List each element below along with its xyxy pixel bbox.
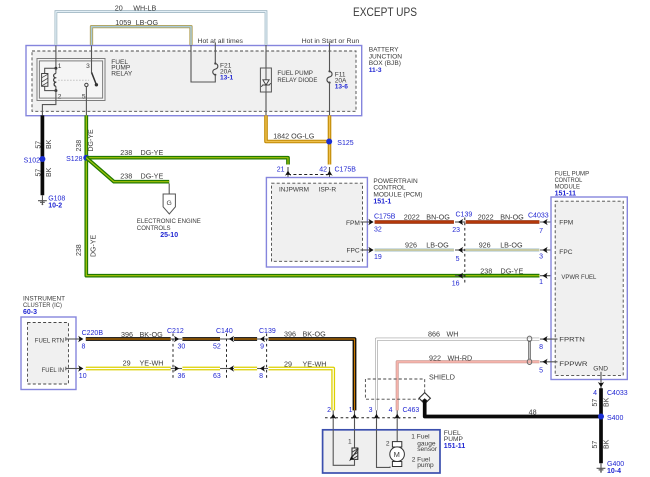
FPCM GND connector arrow bbox=[598, 382, 604, 387]
svg-text:2: 2 bbox=[386, 441, 390, 448]
powertrain control module PCM box bbox=[266, 178, 367, 268]
svg-text:C139: C139 bbox=[456, 212, 473, 219]
svg-text:C140: C140 bbox=[216, 328, 233, 335]
fuse F11 feed wire bbox=[329, 43, 331, 72]
wire 48 BK shield drain bbox=[425, 400, 601, 417]
svg-text:G: G bbox=[167, 200, 172, 207]
relay pin 5 wire (inside) bbox=[85, 87, 87, 116]
label 2022 BN-OG (left) bbox=[404, 213, 450, 222]
IC pin FUEL RTN lead and arrow bbox=[66, 336, 84, 342]
FPCM pin FPRTN arrow bbox=[540, 336, 558, 342]
wire 29 YE-WH (IC to C212) bbox=[86, 367, 171, 371]
wire 396 BK-OG (IC to C212) bbox=[86, 337, 171, 341]
label 2022 BN-OG (right) bbox=[478, 213, 524, 222]
fuel pump motor return wire to pin 3 bbox=[377, 430, 391, 468]
svg-text:FPM: FPM bbox=[559, 219, 573, 226]
fuse F11 bbox=[327, 70, 332, 83]
svg-text:LB-OG: LB-OG bbox=[136, 18, 159, 27]
battery junction box BJB outline bbox=[26, 46, 362, 116]
wire 396 BK-OG (C212 to C140) bbox=[182, 337, 220, 341]
fuel pump relay diode box bbox=[260, 68, 271, 92]
svg-text:G400: G400 bbox=[607, 461, 624, 468]
svg-text:1: 1 bbox=[349, 407, 353, 414]
ground G400 bbox=[597, 463, 606, 473]
diode label text bbox=[277, 70, 318, 84]
svg-text:PUMP: PUMP bbox=[444, 436, 464, 443]
svg-text:151-11: 151-11 bbox=[444, 443, 466, 450]
wire 1059 LB-OG label bbox=[115, 18, 158, 27]
svg-text:CLUSTER (IC): CLUSTER (IC) bbox=[23, 302, 62, 309]
IC pin FUEL IN tick bbox=[65, 367, 67, 371]
svg-text:G108: G108 bbox=[48, 195, 65, 202]
svg-text:LB-OG: LB-OG bbox=[500, 240, 523, 249]
svg-text:FUEL RTN: FUEL RTN bbox=[35, 337, 64, 344]
label 238 DG-YE (branch 2) bbox=[120, 172, 163, 181]
label 926 LB-OG (right) bbox=[479, 240, 523, 249]
wire 1059 LB-OG loop bbox=[92, 27, 192, 45]
svg-text:VPWR FUEL: VPWR FUEL bbox=[561, 274, 596, 281]
wire 2022 BN-OG (PCM to C139) bbox=[375, 220, 454, 224]
wire 238 DG-YE branch to PCM pin 21 bbox=[86, 158, 288, 165]
svg-text:57: 57 bbox=[35, 169, 42, 177]
svg-text:8: 8 bbox=[539, 344, 543, 351]
svg-text:RELAY DIODE: RELAY DIODE bbox=[277, 77, 318, 84]
svg-text:922: 922 bbox=[429, 354, 441, 363]
svg-text:YE-WH: YE-WH bbox=[303, 360, 327, 369]
svg-text:4: 4 bbox=[389, 407, 393, 414]
svg-text:4: 4 bbox=[593, 390, 597, 397]
svg-text:36: 36 bbox=[178, 373, 186, 380]
svg-text:13-1: 13-1 bbox=[220, 75, 234, 82]
connector C139 dashed line (lower) bbox=[266, 334, 268, 379]
svg-text:32: 32 bbox=[374, 227, 382, 234]
svg-text:EXCEPT UPS: EXCEPT UPS bbox=[353, 5, 417, 19]
wire 238 DG-YE (C139 to FPCM) bbox=[466, 274, 540, 278]
wire 1842 OG-LG from diode bbox=[266, 115, 329, 141]
fuel gauge sensor (variable resistor) bbox=[349, 448, 358, 461]
svg-text:WH-RD: WH-RD bbox=[448, 354, 473, 363]
EEC G pentagon symbol bbox=[163, 194, 175, 214]
EEC stub wire bbox=[168, 184, 170, 195]
svg-text:7: 7 bbox=[539, 228, 543, 235]
EEC label text bbox=[137, 218, 202, 239]
FPCM label text bbox=[555, 171, 590, 198]
svg-text:FPPWR: FPPWR bbox=[559, 361, 588, 368]
C139 arrow on YE-WH wire bbox=[257, 365, 268, 371]
svg-text:C4033: C4033 bbox=[607, 390, 628, 397]
wire 922 WH-RD bbox=[397, 362, 539, 411]
svg-text:926: 926 bbox=[405, 240, 417, 249]
svg-text:C212: C212 bbox=[167, 328, 184, 335]
svg-text:BK: BK bbox=[603, 397, 610, 407]
fuel pump relay diode symbol bbox=[261, 68, 270, 92]
label 238 DG-YE (VPWR segment) bbox=[480, 266, 523, 275]
wire 57 BK (FPCM to G400) bbox=[599, 388, 603, 463]
svg-text:YE-WH: YE-WH bbox=[140, 359, 164, 368]
svg-text:8: 8 bbox=[82, 343, 86, 350]
fuel pump control module FPCM box bbox=[551, 197, 627, 380]
svg-text:S125: S125 bbox=[337, 140, 353, 147]
svg-text:151-1: 151-1 bbox=[373, 199, 391, 206]
svg-text:5: 5 bbox=[539, 367, 543, 374]
svg-text:RELAY: RELAY bbox=[111, 71, 133, 78]
svg-text:238: 238 bbox=[76, 140, 83, 152]
svg-text:20: 20 bbox=[115, 3, 123, 12]
svg-text:BK: BK bbox=[46, 139, 53, 149]
svg-text:2022: 2022 bbox=[478, 213, 494, 222]
wire F11 to BJB bottom (inside) bbox=[329, 83, 331, 116]
svg-text:10: 10 bbox=[79, 373, 87, 380]
svg-text:S128: S128 bbox=[66, 156, 82, 163]
C140 arrow on YE-WH wire bbox=[220, 365, 234, 371]
label 238 DG-YE (branch 1) bbox=[120, 148, 163, 157]
wire 20 WH-LB label bbox=[115, 3, 157, 12]
svg-text:11-3: 11-3 bbox=[369, 67, 382, 74]
C139 arrow on FPM wire bbox=[455, 219, 465, 225]
C139 arrow on VPWR wire bbox=[455, 273, 465, 279]
FPCM GND lead bbox=[600, 372, 602, 390]
svg-text:FPM: FPM bbox=[346, 220, 360, 227]
wire 29 YE-WH (C212 to C140) bbox=[182, 367, 220, 371]
fuse F21 labels bbox=[220, 63, 234, 82]
C463 pin 1 arrow bbox=[351, 410, 357, 429]
svg-text:Hot in Start or Run: Hot in Start or Run bbox=[302, 38, 360, 45]
svg-text:396: 396 bbox=[284, 329, 296, 338]
wire 2022 BN-OG (C139 to FPCM) bbox=[466, 220, 540, 224]
svg-text:Hot at all times: Hot at all times bbox=[198, 38, 244, 45]
svg-text:BK: BK bbox=[603, 439, 610, 449]
svg-text:5: 5 bbox=[456, 256, 460, 263]
svg-text:S400: S400 bbox=[607, 415, 623, 422]
svg-text:sensor: sensor bbox=[417, 446, 438, 453]
svg-text:5: 5 bbox=[82, 94, 86, 101]
fuel pump box bbox=[323, 430, 440, 473]
svg-text:23: 23 bbox=[452, 227, 460, 234]
fuse F21 feed wire bbox=[214, 43, 216, 64]
instrument cluster IC box bbox=[21, 317, 76, 390]
label 866 WH bbox=[428, 330, 458, 339]
svg-text:C175B: C175B bbox=[335, 166, 357, 173]
svg-text:FUEL PUMP: FUEL PUMP bbox=[277, 70, 313, 77]
svg-text:DG-YE: DG-YE bbox=[141, 148, 164, 157]
C463 pin 4 arrow bbox=[394, 410, 400, 429]
C463 pin 3 arrow bbox=[373, 410, 379, 429]
svg-text:1059: 1059 bbox=[115, 18, 131, 27]
svg-text:S102: S102 bbox=[24, 158, 40, 165]
svg-text:M: M bbox=[394, 450, 400, 459]
wire 20 WH-LB loop bbox=[56, 12, 266, 45]
svg-text:1 Fuel: 1 Fuel bbox=[411, 433, 430, 440]
svg-text:2: 2 bbox=[58, 94, 62, 101]
svg-text:396: 396 bbox=[121, 330, 133, 339]
svg-text:57: 57 bbox=[592, 441, 599, 449]
svg-text:3: 3 bbox=[369, 407, 373, 414]
connector C212 dashed line bbox=[172, 334, 174, 379]
svg-text:FPC: FPC bbox=[559, 249, 572, 256]
relay pin 2 wire (inside) bbox=[42, 91, 56, 116]
svg-text:238: 238 bbox=[120, 148, 132, 157]
svg-text:FUEL IN: FUEL IN bbox=[42, 367, 65, 374]
svg-text:29: 29 bbox=[284, 360, 292, 369]
label 926 LB-OG (left) bbox=[405, 240, 449, 249]
svg-text:926: 926 bbox=[479, 240, 491, 249]
svg-text:10-2: 10-2 bbox=[48, 203, 62, 210]
shield drain diamond bbox=[419, 393, 430, 404]
IC pin FUEL RTN tick bbox=[65, 337, 67, 341]
svg-text:19: 19 bbox=[374, 254, 382, 261]
wire 1842 OG-LG from F11 down to PCM pin 42 bbox=[328, 115, 332, 164]
splice S102 bbox=[39, 156, 45, 162]
PCM pin 42 arrow bbox=[326, 167, 332, 184]
svg-text:48: 48 bbox=[529, 407, 537, 416]
C140 arrow on BK-OG wire bbox=[220, 336, 234, 342]
wire 396 BK-OG (C140 to C139) bbox=[234, 337, 257, 341]
label 922 WH-RD bbox=[429, 354, 472, 363]
svg-text:BK-OG: BK-OG bbox=[140, 330, 164, 339]
svg-text:C4033: C4033 bbox=[528, 212, 549, 219]
C139 arrow on BK-OG wire bbox=[257, 336, 268, 342]
FPCM pin VPWR FUEL arrow bbox=[540, 273, 558, 279]
wire diode to BJB bottom (inside) bbox=[265, 92, 267, 115]
FPCM pin FPM arrow bbox=[540, 219, 558, 225]
svg-text:1842 OG-LG: 1842 OG-LG bbox=[273, 132, 315, 141]
relay resistor bbox=[42, 68, 56, 90]
svg-text:SHIELD: SHIELD bbox=[429, 373, 455, 382]
svg-text:238: 238 bbox=[76, 244, 83, 256]
relay pin 1 wire (inside) bbox=[55, 46, 57, 69]
relay coil bbox=[54, 67, 58, 92]
svg-text:3: 3 bbox=[86, 63, 90, 70]
wire 926 LB-OG (PCM to C139) bbox=[375, 248, 454, 251]
svg-text:1: 1 bbox=[58, 63, 62, 70]
fuel pump box label bbox=[444, 430, 466, 450]
svg-text:60-3: 60-3 bbox=[23, 309, 37, 316]
svg-text:151-11: 151-11 bbox=[555, 191, 577, 198]
svg-text:238: 238 bbox=[120, 172, 132, 181]
svg-text:ISP-R: ISP-R bbox=[319, 186, 337, 193]
fuse F11 labels bbox=[335, 72, 349, 91]
wire 29 YE-WH (C139 to pump) bbox=[269, 369, 334, 411]
PCM pin FPC lead and arrow bbox=[361, 247, 374, 253]
wire 926 LB-OG (C139 to FPCM) bbox=[466, 248, 540, 251]
relay pin 3 wire (inside) bbox=[91, 46, 93, 73]
svg-text:2: 2 bbox=[327, 407, 331, 414]
ground G108 bbox=[38, 195, 47, 205]
svg-text:8: 8 bbox=[259, 373, 263, 380]
label 29 YE-WH (right) bbox=[284, 360, 326, 369]
svg-text:DG-YE: DG-YE bbox=[141, 172, 164, 181]
connector C139 dashed line (upper) bbox=[464, 218, 466, 285]
FPCM pin FPPWR arrow bbox=[540, 359, 558, 365]
wire 866 WH bbox=[377, 339, 540, 410]
C212 arrow on BK-OG wire bbox=[171, 336, 182, 342]
svg-text:9: 9 bbox=[260, 343, 264, 350]
svg-text:BN-OG: BN-OG bbox=[500, 213, 524, 222]
svg-text:pump: pump bbox=[417, 462, 434, 469]
svg-text:DG-YE: DG-YE bbox=[91, 235, 98, 258]
twisted pair symbol bbox=[527, 336, 532, 364]
svg-text:BK-OG: BK-OG bbox=[303, 329, 327, 338]
svg-text:21: 21 bbox=[277, 166, 285, 173]
svg-text:1: 1 bbox=[348, 439, 352, 446]
IC label text bbox=[23, 296, 65, 317]
svg-text:C175B: C175B bbox=[374, 213, 396, 220]
label 396 BK-OG (right) bbox=[284, 329, 326, 338]
relay switch blade bbox=[92, 72, 99, 86]
wire 396 BK-OG (C139 to pump) bbox=[269, 339, 355, 410]
svg-text:30: 30 bbox=[178, 343, 186, 350]
fuel gauge sensor wire from pin 1 bbox=[354, 430, 356, 448]
wire F21 to relay pin3 (inside BJB) bbox=[191, 45, 215, 82]
svg-text:BN-OG: BN-OG bbox=[426, 213, 450, 222]
fuel pump relay box bbox=[37, 59, 105, 101]
svg-text:LB-OG: LB-OG bbox=[426, 240, 449, 249]
PCM pin 21 arrow bbox=[285, 167, 291, 184]
svg-text:57: 57 bbox=[35, 141, 42, 149]
splice S125 bbox=[326, 139, 332, 145]
fuel pump legend text bbox=[411, 433, 437, 468]
fuel pump motor wire from pin 4 bbox=[396, 430, 398, 442]
svg-text:42: 42 bbox=[319, 166, 327, 173]
fuel pump motor bbox=[390, 442, 405, 467]
svg-text:DG-YE: DG-YE bbox=[88, 129, 95, 152]
connector C463 dashed line bbox=[325, 417, 418, 419]
label 396 BK-OG (left) bbox=[121, 330, 163, 339]
splice S400 bbox=[598, 414, 604, 420]
connector C175B dashed line bbox=[288, 174, 330, 176]
wire 29 YE-WH (C140 to C139) bbox=[234, 367, 257, 371]
wire 57 BK from relay pin 2 bbox=[41, 115, 45, 195]
wire 238 DG-YE main vertical from relay pin 5 bbox=[86, 115, 539, 275]
svg-text:3: 3 bbox=[539, 253, 543, 260]
fuse F21 bbox=[213, 62, 218, 76]
svg-text:16: 16 bbox=[452, 280, 460, 287]
svg-text:25-10: 25-10 bbox=[160, 232, 178, 239]
svg-text:1: 1 bbox=[539, 279, 543, 286]
svg-text:WH: WH bbox=[447, 330, 459, 339]
PCM label text bbox=[373, 178, 422, 206]
C212 arrow on YE-WH wire bbox=[171, 365, 182, 371]
svg-text:13-6: 13-6 bbox=[335, 84, 349, 91]
C463 pin 2 arrow bbox=[330, 410, 336, 429]
FPCM pin FPC arrow bbox=[540, 247, 558, 253]
label 29 YE-WH (left) bbox=[123, 359, 164, 368]
svg-text:GND: GND bbox=[593, 366, 608, 373]
svg-text:WH-LB: WH-LB bbox=[133, 3, 156, 12]
connector C140 dashed line bbox=[226, 334, 228, 379]
fuel gauge sensor return wire to pin 2 bbox=[333, 430, 354, 466]
svg-text:10-4: 10-4 bbox=[607, 468, 621, 475]
fuel pump relay diode feed (inside) bbox=[265, 45, 267, 68]
svg-text:57: 57 bbox=[592, 399, 599, 407]
svg-text:FPRTN: FPRTN bbox=[559, 337, 585, 344]
svg-text:INJPWRM: INJPWRM bbox=[279, 186, 309, 193]
svg-text:C139: C139 bbox=[259, 328, 276, 335]
svg-text:63: 63 bbox=[213, 373, 221, 380]
PCM pin FPM lead and arrow bbox=[361, 219, 374, 225]
svg-text:866: 866 bbox=[428, 330, 440, 339]
shield dashed outline bbox=[365, 379, 424, 399]
svg-text:FPC: FPC bbox=[347, 248, 360, 255]
BJB label text bbox=[369, 46, 403, 74]
svg-text:2022: 2022 bbox=[404, 213, 420, 222]
relay pin 5 contact circle bbox=[85, 83, 88, 86]
svg-text:52: 52 bbox=[213, 343, 221, 350]
C139 arrow on FPC wire bbox=[455, 247, 465, 253]
IC pin FUEL IN lead and arrow bbox=[66, 365, 84, 371]
svg-text:C220B: C220B bbox=[82, 330, 104, 337]
wire 238 DG-YE branch to EEC bbox=[86, 158, 169, 182]
svg-text:BK: BK bbox=[46, 167, 53, 177]
splice S128 bbox=[83, 155, 89, 161]
relay actuation dotted link bbox=[58, 79, 89, 81]
svg-text:C463: C463 bbox=[403, 407, 420, 414]
relay label text bbox=[111, 59, 133, 78]
svg-text:29: 29 bbox=[123, 359, 131, 368]
